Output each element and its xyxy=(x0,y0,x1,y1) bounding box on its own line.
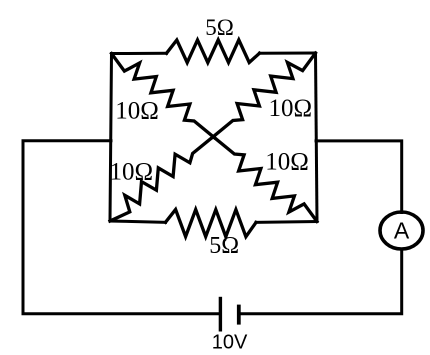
svg-text:5Ω: 5Ω xyxy=(205,15,234,40)
svg-text:10V: 10V xyxy=(212,331,248,353)
wire: top edge right stub xyxy=(260,52,316,55)
ammeter A1 body xyxy=(380,212,423,249)
resistor R2 5Ω (bottom) xyxy=(166,210,257,237)
resistor R4 10Ω (upper-right diagonal) xyxy=(213,53,316,137)
wire: top edge left stub xyxy=(112,52,167,55)
battery V1 negative plate (short) xyxy=(237,305,241,325)
resistor R5 10Ω (lower-left diagonal) xyxy=(110,137,213,221)
resistor R3 10Ω (upper-left diagonal) xyxy=(112,54,215,138)
svg-text:10Ω: 10Ω xyxy=(110,159,154,186)
svg-text:10Ω: 10Ω xyxy=(265,149,309,176)
svg-text:5Ω: 5Ω xyxy=(209,233,239,259)
battery V1 positive plate (long) xyxy=(219,297,222,332)
svg-text:10Ω: 10Ω xyxy=(115,97,159,124)
svg-text:10Ω: 10Ω xyxy=(269,95,313,122)
wire: ammeter top to bridge right node xyxy=(316,141,402,213)
wire: bottom edge left stub xyxy=(110,221,166,222)
wire: bottom edge right stub xyxy=(256,220,317,224)
resistor R1 5Ω (top) xyxy=(167,40,260,63)
svg-text:A: A xyxy=(394,218,410,244)
wire: bridge left edge xyxy=(110,54,112,222)
wire: left branch to battery positive xyxy=(23,141,219,314)
resistor R6 10Ω (lower-right diagonal) xyxy=(214,138,317,222)
wire: bridge right edge xyxy=(316,53,318,222)
wire: battery negative to ammeter bottom xyxy=(241,249,402,314)
